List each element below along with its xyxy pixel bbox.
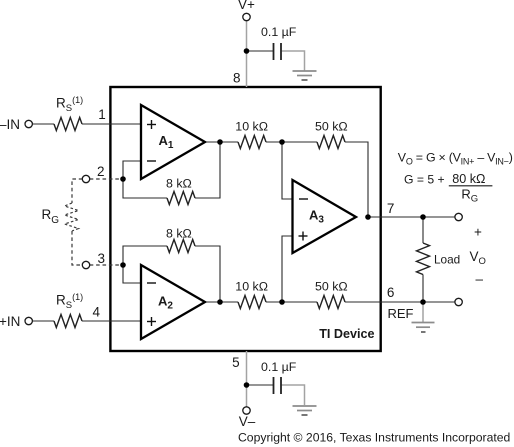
svg-text:REF: REF xyxy=(388,306,414,321)
svg-text:Copyright © 2016, Texas Instru: Copyright © 2016, Texas Instruments Inco… xyxy=(238,431,510,445)
svg-text:–: – xyxy=(476,272,484,287)
svg-text:V–: V– xyxy=(239,414,256,429)
svg-text:8 kΩ: 8 kΩ xyxy=(166,227,192,241)
svg-text:8: 8 xyxy=(233,71,241,86)
svg-text:6: 6 xyxy=(387,285,395,300)
svg-text:0.1 µF: 0.1 µF xyxy=(261,25,297,39)
svg-text:G = 5 +: G = 5 + xyxy=(404,173,445,187)
svg-text:8 kΩ: 8 kΩ xyxy=(166,177,192,191)
svg-text:2: 2 xyxy=(97,164,105,179)
svg-text:50 kΩ: 50 kΩ xyxy=(315,280,348,294)
svg-text:TI Device: TI Device xyxy=(319,327,374,341)
svg-text:Load: Load xyxy=(434,253,460,267)
svg-text:7: 7 xyxy=(387,201,395,216)
svg-text:0.1 µF: 0.1 µF xyxy=(261,360,297,374)
svg-text:50 kΩ: 50 kΩ xyxy=(315,119,348,133)
svg-text:+IN: +IN xyxy=(0,314,20,329)
svg-text:80 kΩ: 80 kΩ xyxy=(452,172,485,186)
svg-text:–IN: –IN xyxy=(0,117,20,132)
svg-text:3: 3 xyxy=(97,251,105,266)
svg-text:4: 4 xyxy=(92,305,100,320)
svg-text:10 kΩ: 10 kΩ xyxy=(235,119,268,133)
svg-text:+: + xyxy=(474,225,482,240)
svg-text:5: 5 xyxy=(232,355,240,370)
svg-text:V+: V+ xyxy=(238,0,255,12)
svg-text:1: 1 xyxy=(98,107,106,122)
svg-text:10 kΩ: 10 kΩ xyxy=(235,280,268,294)
